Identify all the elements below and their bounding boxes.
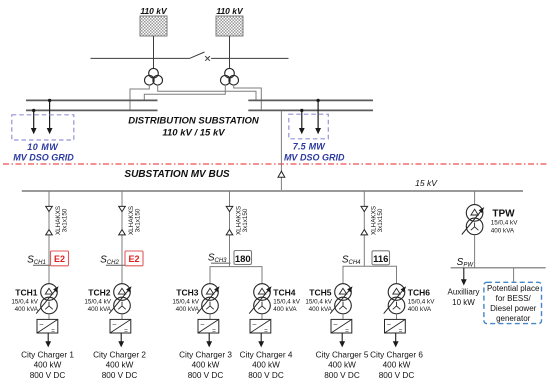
svg-text:=: = [399, 328, 403, 335]
wire: MV bus feeder CH3 [229, 191, 231, 267]
value label E2 (feeder CH2) [125, 251, 143, 266]
value label 800 V DC (City Charger 4) [248, 371, 284, 380]
transformer TCH6 15/0,4 kV 400 kVA [384, 284, 406, 314]
cable type label XLHAKXS 3x1x150 feeder CH4 [370, 206, 384, 235]
cable termination (down triangle) feeder CH3 [226, 206, 233, 211]
wire: feeder CH4 split bar to TCH5 and TCH6 [343, 266, 397, 284]
svg-text:SUBSTATION MV BUS: SUBSTATION MV BUS [124, 169, 230, 180]
cable termination (down triangle) feeder CH4 [361, 206, 368, 211]
AC/DC converter (rectifier) of TCH4 [250, 319, 271, 334]
output arrow to City Charger 4 [258, 333, 264, 347]
svg-text:15/0,4 kV: 15/0,4 kV [84, 298, 111, 305]
load label City Charger 6 [370, 350, 423, 359]
svg-text:15/0,4 kV: 15/0,4 kV [172, 298, 199, 305]
load label City Charger 3 [179, 350, 232, 359]
wire: T2 winding b to lower-right busbar [234, 85, 262, 110]
svg-text:3x1x150: 3x1x150 [135, 208, 142, 232]
net label 15 kV [415, 178, 438, 188]
svg-text:400 kVA: 400 kVA [176, 306, 200, 313]
reference label TCH3 [176, 287, 198, 297]
svg-text:15/0,4 kV: 15/0,4 kV [408, 298, 435, 305]
output arrow to City Charger 5 [339, 333, 345, 347]
7.5 MW DSO grid dashed boundary box [289, 114, 329, 139]
wire: MV bus feeder CH1 [48, 191, 50, 284]
svg-text:400 kW: 400 kW [383, 361, 411, 370]
svg-text:400 kW: 400 kW [328, 361, 356, 370]
value label 400 kVA (TCH2) [88, 306, 112, 313]
svg-text:400 kW: 400 kW [192, 361, 220, 370]
svg-text:~: ~ [252, 320, 257, 329]
svg-text:15/0,4 kV: 15/0,4 kV [491, 219, 518, 226]
value label 400 kW (City Charger 6) [383, 361, 411, 370]
cable termination (up triangle) feeder CH4 [361, 230, 368, 235]
busbar lower-left section [26, 109, 158, 111]
svg-text:City Charger 5: City Charger 5 [316, 350, 369, 359]
busbar upper-right section [248, 99, 373, 101]
svg-text:for BESS/: for BESS/ [496, 294, 532, 303]
wire: right source to 110kV line and transformer T2 [229, 36, 231, 69]
svg-text:=: = [264, 328, 268, 335]
value label 15/0,4 kV (TCH5) [305, 298, 332, 305]
value label 15/0,4 kV (TCH3) [172, 298, 199, 305]
switch S_CH1 contact line [33, 264, 64, 266]
svg-text:TCH2: TCH2 [88, 287, 110, 297]
wire: TCH6 to AC/DC converter [396, 314, 398, 320]
cable termination (up triangle) feeder CH1 [46, 230, 53, 235]
MV busbar 15 kV [22, 190, 523, 192]
wire: T1 winding a to lower-left busbar [130, 85, 149, 110]
svg-text:800 V DC: 800 V DC [188, 371, 224, 380]
value label 400 kW (City Charger 5) [328, 361, 356, 370]
wire: TCH1 to AC/DC converter [48, 314, 50, 320]
svg-text:10 kW: 10 kW [452, 298, 475, 307]
switch S_CH2 contact line [106, 264, 137, 266]
svg-text:E2: E2 [128, 254, 139, 264]
svg-text:=: = [345, 328, 349, 335]
reference label TPW [492, 208, 515, 219]
10 MW DSO grid dashed boundary box [12, 115, 74, 140]
svg-text:City Charger 1: City Charger 1 [21, 350, 74, 359]
svg-text:=: = [51, 328, 55, 335]
value label 800 V DC (City Charger 2) [102, 371, 138, 380]
svg-text:City Charger 2: City Charger 2 [93, 350, 146, 359]
transformer TCH1 15/0,4 kV 400 kVA [36, 284, 58, 314]
cable type label XLHAKXS 3x1x150 feeder CH1 [55, 206, 69, 235]
svg-text:15/0,4 kV: 15/0,4 kV [305, 298, 332, 305]
110 kV tie line (right segment) [211, 57, 289, 59]
feeder arrow to 10 MW MV DSO grid (from upper bus) [47, 100, 53, 134]
output arrow to City Charger 3 [206, 333, 212, 347]
value label 800 V DC (City Charger 5) [324, 371, 360, 380]
svg-text:City Charger 3: City Charger 3 [179, 350, 232, 359]
LV distribution bar (S_PW) [451, 267, 546, 269]
output arrow to auxiliary load [461, 268, 467, 286]
substation boundary (red dash-dot line) [3, 163, 547, 165]
svg-text:800 V DC: 800 V DC [379, 371, 415, 380]
svg-text:TCH4: TCH4 [273, 287, 295, 297]
svg-text:15 kV: 15 kV [415, 178, 438, 188]
wire: feeder CH3 split bar to TCH3 and TCH4 [210, 267, 262, 284]
svg-text:800 V DC: 800 V DC [102, 371, 138, 380]
transformer T2 110/15 kV (three winding) [221, 68, 239, 85]
value label 400 kW (City Charger 2) [106, 361, 134, 370]
reference label TCH2 [88, 287, 110, 297]
svg-text:110 kV: 110 kV [216, 6, 244, 16]
svg-text:116: 116 [373, 254, 388, 265]
disconnect switch (open, with X) on 110 kV tie [190, 52, 210, 61]
load label Auxilliary [447, 288, 479, 297]
load label City Charger 4 [240, 350, 293, 359]
wire: MV bus feeder CH4 [363, 191, 365, 266]
svg-text:=: = [124, 328, 128, 335]
svg-text:400 kVA: 400 kVA [491, 227, 515, 234]
net label 10 MW [27, 142, 59, 152]
junction on lower-left busbar [32, 109, 35, 112]
cable type label XLHAKXS 3x1x150 feeder CH2 [128, 206, 142, 235]
svg-text:400 kVA: 400 kVA [273, 306, 297, 313]
svg-text:7.5 MW: 7.5 MW [293, 141, 327, 151]
svg-text:400 kW: 400 kW [34, 361, 62, 370]
value label 400 kVA (TCH1) [15, 306, 39, 313]
svg-text:~: ~ [39, 320, 44, 329]
cable termination (down triangle) feeder CH1 [46, 206, 53, 211]
caption SUBSTATION MV BUS [124, 169, 230, 180]
svg-text:~: ~ [333, 320, 338, 329]
load label City Charger 1 [21, 350, 74, 359]
value label 400 kVA (TCH5) [309, 306, 333, 313]
transformer TCH3 15/0,4 kV 400 kVA [197, 284, 219, 314]
AC/DC converter (rectifier) of TCH3 [198, 319, 219, 334]
switch S_CH3 contact line [211, 262, 231, 264]
value label 400 kVA (TCH3) [176, 306, 200, 313]
wire: substation lower-right bus to MV bus [280, 110, 282, 190]
svg-text:3x1x150: 3x1x150 [242, 208, 249, 232]
value label 400 kVA (TCH6) [408, 306, 432, 313]
wire: TPW to LV distribution bar [474, 235, 476, 268]
output arrow to City Charger 6 [393, 333, 399, 347]
AC/DC converter (rectifier) of TCH2 [110, 319, 131, 334]
svg-text:generator: generator [496, 314, 531, 323]
switch label S_CH1 [27, 254, 46, 266]
svg-text:15/0,4 kV: 15/0,4 kV [11, 298, 38, 305]
feeder arrow to 7.5 MW MV DSO grid (from upper bus) [315, 100, 321, 134]
wire: T1 winding b to upper-right busbar [158, 85, 256, 100]
110 kV tie line (left segment) [91, 57, 190, 59]
svg-text:=: = [212, 328, 216, 335]
svg-text:3x1x150: 3x1x150 [377, 208, 384, 232]
grid source symbol left (hatched box) [140, 16, 167, 36]
caption DISTRIBUTION SUBSTATION [128, 116, 260, 127]
svg-text:DISTRIBUTION SUBSTATION: DISTRIBUTION SUBSTATION [128, 116, 260, 127]
svg-text:400 kW: 400 kW [106, 361, 134, 370]
svg-text:TPW: TPW [492, 208, 515, 219]
svg-text:800 V DC: 800 V DC [248, 371, 284, 380]
svg-text:Diesel power: Diesel power [490, 304, 537, 313]
wire: T2 winding a to upper-left busbar [144, 85, 225, 100]
svg-text:Potential place: Potential place [487, 284, 540, 293]
grid source label 110 kV (right) [216, 6, 244, 16]
svg-text:400 kVA: 400 kVA [88, 306, 112, 313]
net label MV DSO GRID (right) [284, 152, 345, 162]
reference label TCH1 [15, 287, 37, 297]
AC/DC converter (rectifier) of TCH6 [385, 319, 406, 334]
switch label S_CH2 [100, 254, 119, 266]
value label 800 V DC (City Charger 3) [188, 371, 224, 380]
value label 10 kW [452, 298, 475, 307]
grid source symbol right (hatched box) [216, 16, 243, 36]
transformer TCH2 15/0,4 kV 400 kVA [109, 284, 131, 314]
transformer TPW 15/0,4 kV 400 kVA [462, 205, 484, 235]
transformer TCH4 15/0,4 kV 400 kVA [249, 284, 271, 314]
wire: TCH3 to AC/DC converter [209, 314, 211, 320]
svg-text:~: ~ [112, 320, 117, 329]
value label 800 V DC (City Charger 1) [30, 371, 66, 380]
svg-text:~: ~ [200, 320, 205, 329]
svg-text:TCH3: TCH3 [176, 287, 198, 297]
value label 15/0,4 kV (TCH4) [273, 298, 300, 305]
junction on lower-right busbar (DSO feeder) [300, 109, 303, 112]
value label 800 V DC (City Charger 6) [379, 371, 415, 380]
svg-text:E2: E2 [54, 254, 65, 264]
svg-text:800 V DC: 800 V DC [30, 371, 66, 380]
value label 400 kW (City Charger 1) [34, 361, 62, 370]
svg-text:3x1x150: 3x1x150 [62, 208, 69, 232]
svg-text:10 MW: 10 MW [27, 142, 59, 152]
svg-text:TCH1: TCH1 [15, 287, 37, 297]
grid source label 110 kV (left) [140, 6, 168, 16]
svg-text:TCH6: TCH6 [408, 287, 430, 297]
AC/DC converter (rectifier) of TCH5 [331, 319, 352, 334]
svg-text:MV DSO GRID: MV DSO GRID [13, 152, 74, 162]
output arrow to City Charger 2 [118, 333, 124, 347]
wire: MV bus feeder CH2 [121, 191, 123, 284]
svg-text:~: ~ [387, 320, 392, 329]
junction on upper-right busbar [316, 99, 319, 102]
cable termination (down triangle) feeder CH2 [119, 206, 126, 211]
junction on upper-left busbar [48, 99, 51, 102]
wire: left source to 110kV line and transformer T1 [153, 36, 155, 69]
value label 15/0,4 kV (TCH1) [11, 298, 38, 305]
wire: MV bus to transformer TPW [474, 191, 476, 205]
BESS / diesel generator placeholder (dashed box) [484, 282, 542, 323]
value label 400 kVA (TPW) [491, 227, 515, 234]
switch label S_CH4 [342, 254, 361, 266]
wire: TCH5 to AC/DC converter [342, 314, 344, 320]
value label 15/0,4 kV (TCH2) [84, 298, 111, 305]
cable type label XLHAKXS 3x1x150 feeder CH3 [236, 206, 250, 235]
load label City Charger 2 [93, 350, 146, 359]
svg-text:MV DSO GRID: MV DSO GRID [284, 152, 345, 162]
wire: TCH2 to AC/DC converter [121, 314, 123, 320]
value label 180 (feeder CH3) [234, 251, 252, 265]
switch label S_PW [457, 257, 475, 269]
svg-text:Auxilliary: Auxilliary [447, 288, 479, 297]
svg-text:City Charger 4: City Charger 4 [240, 350, 293, 359]
value label 400 kVA (TCH4) [273, 306, 297, 313]
wire: LV bar to BESS placeholder [513, 268, 515, 283]
feeder arrow to 7.5 MW MV DSO grid (from lower bus) [299, 110, 305, 134]
svg-text:110 kV / 15 kV: 110 kV / 15 kV [162, 127, 225, 138]
wire: TCH4 to AC/DC converter [261, 314, 263, 320]
value label 15/0,4 kV (TPW) [491, 219, 518, 226]
value label E2 (feeder CH1) [51, 251, 69, 266]
value label 400 kW (City Charger 4) [252, 361, 280, 370]
reference label TCH5 [309, 287, 331, 297]
cable termination (open triangle) at MV bus infeed [278, 171, 285, 177]
busbar upper-left section [26, 99, 158, 101]
reference label TCH4 [273, 287, 295, 297]
caption 110 kV / 15 kV [162, 127, 225, 138]
net label MV DSO GRID (left) [13, 152, 74, 162]
load label City Charger 5 [316, 350, 369, 359]
svg-text:400 kVA: 400 kVA [408, 306, 432, 313]
svg-text:400 kW: 400 kW [252, 361, 280, 370]
value label 116 (feeder CH4) [372, 251, 390, 265]
svg-text:City Charger 6: City Charger 6 [370, 350, 423, 359]
svg-text:TCH5: TCH5 [309, 287, 331, 297]
feeder arrow to 10 MW MV DSO grid (from lower bus) [31, 110, 37, 134]
cable termination (up triangle) feeder CH3 [226, 230, 233, 235]
reference label TCH6 [408, 287, 430, 297]
svg-text:15/0,4 kV: 15/0,4 kV [273, 298, 300, 305]
svg-text:400 kVA: 400 kVA [15, 306, 39, 313]
svg-text:180: 180 [235, 254, 251, 265]
net label 7.5 MW [293, 141, 327, 151]
transformer TCH5 15/0,4 kV 400 kVA [330, 284, 352, 314]
output arrow to City Charger 1 [45, 333, 51, 347]
value label 15/0,4 kV (TCH6) [408, 298, 435, 305]
label Potential place for BESS/Diesel power generator [487, 284, 540, 323]
busbar lower-right section [248, 109, 373, 111]
cable termination (up triangle) feeder CH2 [119, 230, 126, 235]
value label 400 kW (City Charger 3) [192, 361, 220, 370]
transformer T1 110/15 kV (three winding) [145, 68, 163, 85]
AC/DC converter (rectifier) of TCH1 [37, 319, 58, 334]
switch label S_CH3 [208, 253, 227, 265]
svg-text:400 kVA: 400 kVA [309, 306, 333, 313]
svg-text:110 kV: 110 kV [140, 6, 168, 16]
svg-text:800 V DC: 800 V DC [324, 371, 360, 380]
